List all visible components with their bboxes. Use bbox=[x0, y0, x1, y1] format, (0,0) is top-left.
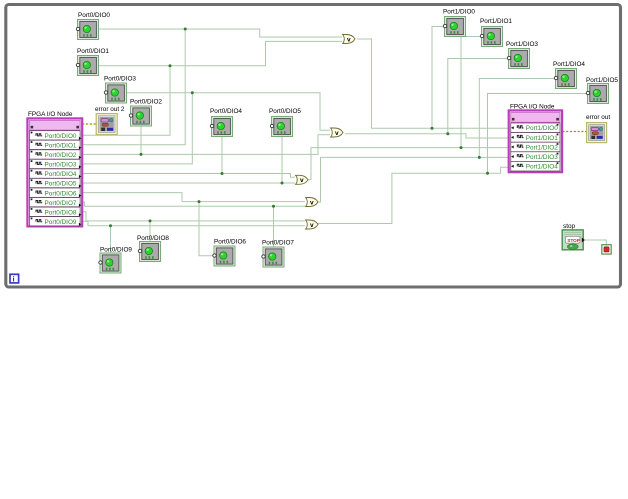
wire stop to conditional terminal bbox=[584, 240, 607, 245]
LED terminal Port1/DIO1 bbox=[480, 18, 512, 47]
node row Port1/DIO3 bbox=[511, 152, 560, 162]
svg-text:stop: stop bbox=[563, 223, 576, 230]
wire DIO5 drop bbox=[281, 137, 283, 183]
wire row5 to OR gate C input2 bbox=[83, 182, 296, 184]
node row Port0/DIO4 bbox=[30, 169, 82, 178]
svg-text:Port1/DIO4: Port1/DIO4 bbox=[526, 164, 558, 171]
node row Port0/DIO6 bbox=[30, 188, 82, 197]
svg-text:Port0/DIO8: Port0/DIO8 bbox=[137, 235, 169, 242]
svg-text:Port0/DIO4: Port0/DIO4 bbox=[45, 171, 77, 178]
wire DIO4 drop bbox=[221, 137, 223, 174]
svg-text:Port0/DIO2: Port0/DIO2 bbox=[130, 99, 162, 106]
svg-text:Port1/DIO1: Port1/DIO1 bbox=[480, 18, 512, 25]
LED terminal Port0/DIO1 bbox=[76, 48, 109, 76]
junction bbox=[184, 28, 187, 31]
svg-text:Port1/DIO0: Port1/DIO0 bbox=[526, 125, 558, 132]
wire row6 to OR gate D input1 bbox=[83, 193, 306, 202]
svg-text:Port0/DIO7: Port0/DIO7 bbox=[262, 240, 294, 247]
node row Port1/DIO1 bbox=[511, 133, 560, 143]
wire row8 to OR gate E input1 bbox=[83, 212, 306, 221]
OR gate C bbox=[296, 175, 308, 184]
svg-text:Port0/DIO3: Port0/DIO3 bbox=[104, 76, 136, 83]
wire row7 to OR gate D input2 bbox=[83, 202, 306, 206]
wire branch to DIO7 bbox=[273, 206, 275, 246]
node row Port0/DIO9 bbox=[30, 217, 82, 226]
iteration terminal i bbox=[10, 274, 19, 283]
LED terminal Port0/DIO3 bbox=[104, 76, 136, 104]
OR gate E bbox=[306, 220, 318, 229]
junction bbox=[486, 172, 489, 175]
node row Port1/DIO2 bbox=[511, 142, 560, 152]
LED terminal Port0/DIO6 bbox=[213, 239, 247, 267]
LED terminal Port0/DIO4 bbox=[210, 108, 242, 137]
svg-text:Port0/DIO1: Port0/DIO1 bbox=[77, 48, 109, 55]
OR gate A bbox=[343, 35, 355, 44]
junction bbox=[272, 205, 275, 208]
junction bbox=[140, 153, 143, 156]
junction bbox=[191, 91, 194, 94]
while loop border bbox=[6, 5, 621, 288]
svg-text:Port0/DIO6: Port0/DIO6 bbox=[45, 190, 77, 197]
svg-text:Port0/DIO0: Port0/DIO0 bbox=[78, 12, 110, 19]
wire riser row1 to DIO0 wire bbox=[83, 29, 186, 145]
wire OR gate D output to right node row3 bbox=[317, 157, 509, 202]
node row Port0/DIO2 bbox=[30, 150, 82, 159]
junction bbox=[221, 172, 224, 175]
LED terminal Port0/DIO0 bbox=[76, 12, 110, 40]
svg-text:Port1/DIO2: Port1/DIO2 bbox=[526, 144, 558, 151]
wire branch to DIO9 bbox=[110, 226, 112, 253]
wire riser to Port1/DIO3 bbox=[448, 59, 508, 134]
error out cluster right bbox=[586, 114, 610, 143]
junction bbox=[198, 200, 201, 203]
node row Port0/DIO5 bbox=[30, 178, 82, 187]
LED terminal Port0/DIO8 bbox=[137, 235, 169, 262]
loop condition terminal bbox=[602, 245, 611, 254]
wire riser to Port1/DIO4 bbox=[479, 79, 555, 158]
junction bbox=[169, 64, 172, 67]
svg-text:error out: error out bbox=[586, 114, 610, 121]
svg-text:Port0/DIO7: Port0/DIO7 bbox=[45, 200, 77, 207]
svg-text:Port1/DIO3: Port1/DIO3 bbox=[506, 41, 538, 48]
wire Port0/DIO1 to OR gate A input2 bbox=[99, 41, 342, 65]
node row Port0/DIO3 bbox=[30, 159, 82, 168]
LED terminal Port0/DIO7 bbox=[262, 240, 295, 268]
LED terminal Port1/DIO4 bbox=[553, 61, 585, 89]
svg-text:Port0/DIO5: Port0/DIO5 bbox=[45, 181, 77, 188]
svg-text:Port0/DIO3: Port0/DIO3 bbox=[45, 162, 77, 169]
svg-text:error out 2: error out 2 bbox=[95, 106, 125, 113]
junction bbox=[149, 219, 152, 222]
svg-text:FPGA I/O Node: FPGA I/O Node bbox=[28, 111, 73, 118]
junction bbox=[281, 182, 284, 185]
wire riser to Port1/DIO0 bbox=[432, 27, 444, 129]
junction bbox=[460, 146, 463, 149]
wire row4 to OR gate C input1 bbox=[83, 174, 296, 178]
svg-text:STOP: STOP bbox=[567, 238, 579, 243]
svg-text:Port0/DIO9: Port0/DIO9 bbox=[45, 219, 77, 226]
svg-text:Port1/DIO5: Port1/DIO5 bbox=[586, 77, 618, 84]
svg-text:Port0/DIO4: Port0/DIO4 bbox=[210, 108, 242, 115]
node row Port1/DIO0 bbox=[511, 123, 560, 133]
wire branch to DIO6 bbox=[199, 202, 214, 256]
junction bbox=[446, 132, 449, 135]
node row Port0/DIO8 bbox=[30, 207, 82, 216]
stop button bbox=[562, 223, 585, 250]
wire riser to Port1/DIO5 bbox=[488, 94, 588, 174]
wire DIO2 drop bbox=[140, 126, 142, 154]
LED terminal Port0/DIO5 bbox=[269, 108, 301, 137]
wire row9 to OR gate E input2 bbox=[83, 221, 306, 226]
wire OR gate C output to right node row2 bbox=[307, 148, 509, 180]
junction bbox=[478, 156, 481, 159]
wire Port0/DIO0 to OR gate A input1 bbox=[99, 29, 342, 37]
LED terminal Port1/DIO0 bbox=[443, 9, 475, 37]
svg-text:Port0/DIO1: Port0/DIO1 bbox=[45, 143, 77, 150]
OR gate D bbox=[306, 198, 318, 207]
wire branch to DIO8 bbox=[149, 221, 151, 241]
svg-text:Port1/DIO4: Port1/DIO4 bbox=[553, 61, 585, 68]
svg-text:Port0/DIO2: Port0/DIO2 bbox=[45, 152, 77, 159]
wire riser row3 to DIO3 wire bbox=[83, 93, 193, 164]
wire error dashed right node to error out bbox=[562, 131, 586, 133]
junction bbox=[431, 127, 434, 130]
node row Port1/DIO4 bbox=[511, 161, 560, 171]
FPGA I/O Node left bbox=[27, 111, 82, 226]
LED terminal Port1/DIO5 bbox=[586, 77, 618, 104]
error out 2 cluster bbox=[95, 106, 125, 135]
svg-text:Port1/DIO3: Port1/DIO3 bbox=[526, 154, 558, 161]
FPGA I/O Node right bbox=[509, 104, 562, 173]
wire riser row0 to DIO1 wire bbox=[83, 66, 171, 136]
svg-text:Port0/DIO8: Port0/DIO8 bbox=[45, 209, 77, 216]
LED terminal Port1/DIO3 bbox=[506, 41, 538, 69]
svg-text:Port1/DIO0: Port1/DIO0 bbox=[443, 9, 475, 16]
svg-text:Port0/DIO6: Port0/DIO6 bbox=[214, 239, 246, 246]
wire row2 to OR gate B input2 bbox=[83, 135, 331, 155]
wire OR gate B output to right node row1 bbox=[345, 134, 509, 138]
node row Port0/DIO1 bbox=[30, 140, 82, 149]
junction bbox=[109, 224, 112, 227]
node row Port0/DIO7 bbox=[30, 198, 82, 207]
wire error dashed left node to error out 2 bbox=[72, 124, 96, 129]
wire Port0/DIO3 to OR gate B input1 bbox=[126, 93, 330, 130]
svg-text:Port0/DIO5: Port0/DIO5 bbox=[269, 108, 301, 115]
wire OR gate E output to right node row4 bbox=[317, 167, 509, 223]
LED terminal Port0/DIO2 bbox=[129, 99, 162, 127]
node row Port0/DIO0 bbox=[30, 131, 82, 140]
LED terminal Port0/DIO9 bbox=[99, 247, 133, 274]
wire OR gate A output to right node row0 bbox=[357, 39, 509, 128]
wire riser to Port1/DIO1 bbox=[461, 37, 481, 148]
svg-text:Port0/DIO0: Port0/DIO0 bbox=[45, 133, 77, 140]
OR gate B bbox=[331, 128, 343, 137]
svg-text:i: i bbox=[13, 277, 15, 284]
svg-text:Port0/DIO9: Port0/DIO9 bbox=[100, 247, 132, 254]
svg-text:Port1/DIO1: Port1/DIO1 bbox=[526, 135, 558, 142]
